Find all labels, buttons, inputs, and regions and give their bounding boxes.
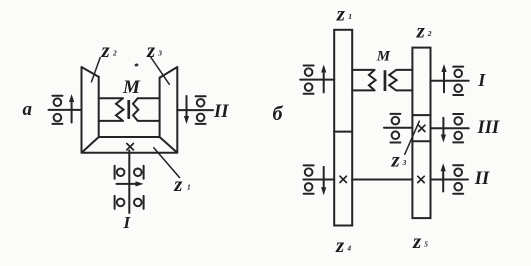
svg-text:4: 4: [346, 244, 351, 253]
svg-text:1: 1: [348, 12, 352, 21]
svg-text:б: б: [273, 103, 284, 125]
svg-text:2: 2: [112, 48, 117, 57]
svg-text:II: II: [474, 169, 490, 189]
svg-text:I: I: [123, 213, 132, 232]
svg-text:I: I: [477, 70, 486, 90]
svg-text:II: II: [213, 102, 229, 122]
svg-text:3: 3: [402, 158, 407, 167]
svg-text:z: z: [336, 2, 346, 26]
svg-text:M: M: [376, 48, 391, 64]
svg-text:2: 2: [427, 29, 432, 38]
svg-text:z: z: [416, 18, 426, 42]
svg-text:5: 5: [424, 240, 428, 249]
svg-text:z: z: [173, 172, 183, 196]
svg-text:а: а: [23, 99, 33, 120]
svg-text:3: 3: [157, 48, 162, 57]
svg-text:z: z: [146, 38, 156, 62]
svg-text:M: M: [122, 77, 141, 98]
svg-text:III: III: [477, 118, 500, 138]
svg-text:z: z: [391, 147, 401, 171]
svg-text:z: z: [101, 38, 111, 62]
svg-text:1: 1: [187, 183, 191, 192]
svg-text:z: z: [412, 229, 422, 253]
svg-text:z: z: [335, 233, 345, 257]
